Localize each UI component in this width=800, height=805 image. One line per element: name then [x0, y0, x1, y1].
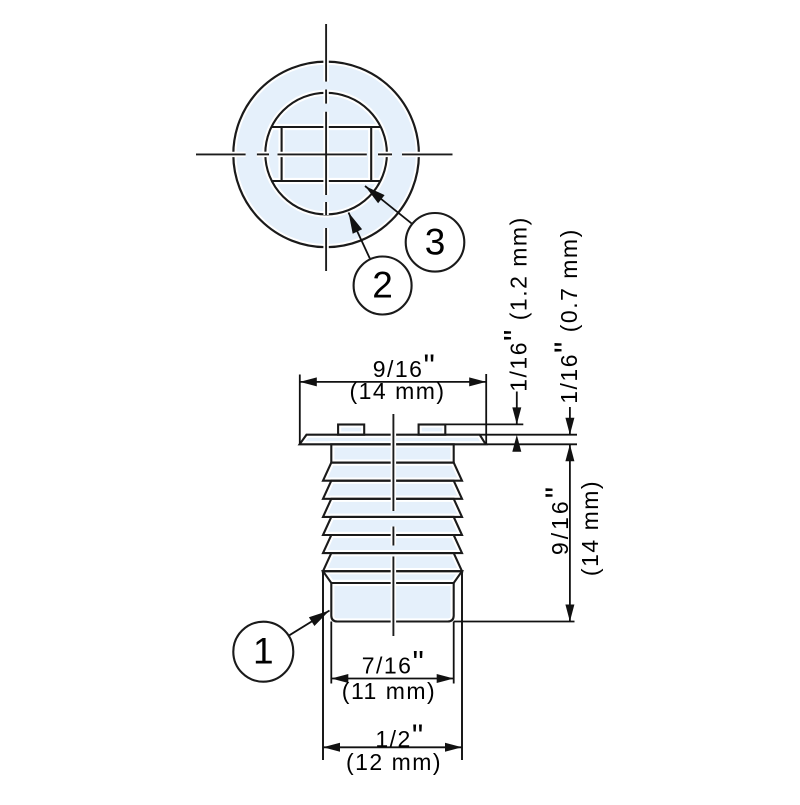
svg-text:(14 mm): (14 mm)	[349, 378, 445, 404]
svg-text:3: 3	[425, 221, 446, 262]
svg-text:2: 2	[372, 265, 393, 306]
svg-text:(11 mm): (11 mm)	[342, 678, 436, 704]
svg-text:(14 mm): (14 mm)	[577, 480, 603, 576]
svg-text:(12 mm): (12 mm)	[346, 749, 442, 775]
svg-text:1: 1	[253, 631, 274, 672]
